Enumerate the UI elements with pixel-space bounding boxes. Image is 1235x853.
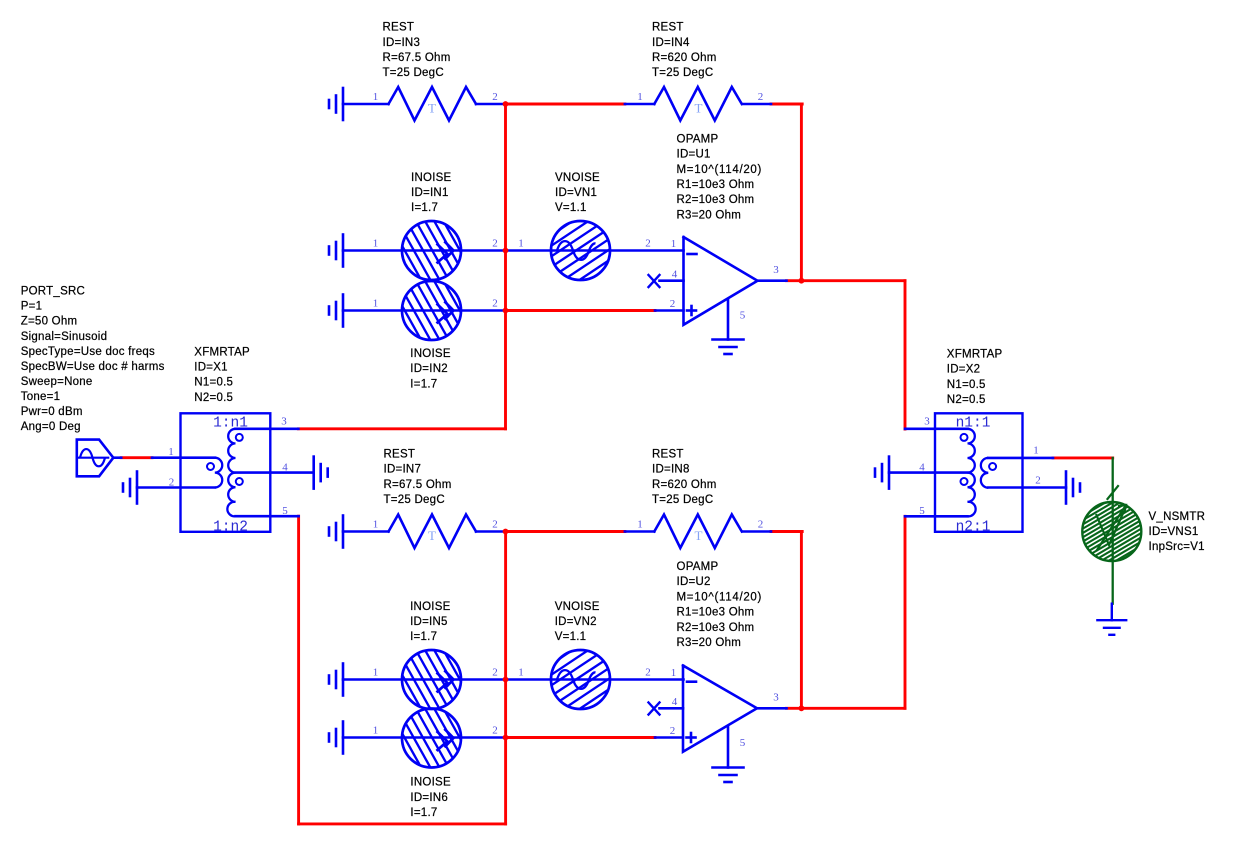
svg-text:1: 1: [671, 238, 677, 250]
wire IN6 row: [343, 736, 506, 739]
svg-text:4: 4: [919, 461, 925, 473]
svg-text:3: 3: [924, 416, 930, 428]
X2 secondary coil 2: [967, 473, 975, 517]
X1 pin2 lead: [137, 486, 215, 489]
svg-text:1: 1: [373, 91, 379, 103]
svg-text:M=10^(114/20): M=10^(114/20): [677, 591, 763, 603]
ground X1 pin2: [136, 472, 139, 504]
resistor IN4: [625, 103, 654, 106]
svg-text:2: 2: [1035, 474, 1041, 486]
ground IN7: [342, 516, 345, 548]
svg-text:R1=10e3 Ohm: R1=10e3 Ohm: [677, 179, 755, 191]
X2 pin1 lead: [988, 457, 1053, 460]
junction (505.5,310.5): [503, 308, 509, 314]
svg-text:V_NSMTR: V_NSMTR: [1149, 511, 1206, 523]
wire feedback vertical to U2 output: [800, 532, 803, 709]
U2 output lead: [757, 707, 787, 710]
svg-text:2: 2: [492, 238, 498, 250]
svg-text:V=1.1: V=1.1: [555, 202, 587, 214]
svg-text:n2:1: n2:1: [956, 519, 991, 535]
svg-text:ID=IN7: ID=IN7: [384, 464, 422, 476]
svg-text:ID=VN1: ID=VN1: [555, 187, 597, 199]
wire X1 pin3 horizontal: [298, 427, 505, 430]
wire IN4.2 to feedback corner: [771, 103, 802, 106]
junction (801.4,280.7): [799, 278, 805, 284]
svg-text:ID=X1: ID=X1: [194, 362, 228, 374]
wire INOISE6 out to U2 plus: [506, 736, 656, 739]
resistor IN7: [343, 530, 389, 533]
wire bottom bus horizontal: [299, 822, 506, 825]
svg-text:1: 1: [671, 667, 677, 679]
svg-text:1: 1: [168, 446, 174, 458]
resistor IN8: [625, 530, 654, 533]
svg-text:REST: REST: [652, 22, 684, 34]
svg-text:1:n1: 1:n1: [213, 415, 248, 431]
wire VN1 row: [506, 249, 684, 252]
svg-text:INOISE: INOISE: [410, 601, 451, 613]
svg-text:N2=0.5: N2=0.5: [194, 392, 233, 404]
svg-text:2: 2: [492, 91, 498, 103]
wire IN5/VN2 row: [343, 678, 684, 681]
junction (505.5,531.5): [503, 529, 509, 535]
svg-text:1: 1: [518, 238, 524, 250]
svg-text:ID=IN5: ID=IN5: [410, 616, 448, 628]
wire feedback vertical to U1 output: [800, 104, 803, 281]
wire IN7.2 to IN8.1: [506, 530, 625, 533]
wire meter vertical green: [1112, 458, 1114, 604]
svg-text:5: 5: [740, 310, 746, 322]
transformer X1 box: [181, 413, 271, 532]
svg-text:1: 1: [637, 519, 643, 531]
svg-text:2: 2: [492, 298, 498, 310]
ground X2 pin4: [888, 457, 891, 489]
svg-text:2: 2: [492, 725, 498, 737]
svg-text:T: T: [695, 100, 703, 115]
junction (505.5,679.5): [503, 677, 509, 683]
ground IN1: [342, 235, 345, 267]
svg-text:ID=X2: ID=X2: [947, 364, 981, 376]
svg-text:SpecBW=Use doc # harms: SpecBW=Use doc # harms: [21, 361, 165, 373]
svg-text:ID=U2: ID=U2: [677, 576, 711, 588]
svg-text:XFMRTAP: XFMRTAP: [194, 346, 250, 358]
svg-text:ID=IN3: ID=IN3: [383, 37, 421, 49]
U2 pin4 lead and no-connect X: [660, 707, 684, 710]
op-amp U1: [684, 237, 758, 325]
port PORT_SRC P1: [77, 440, 114, 477]
X2 primary coil: [981, 458, 988, 488]
X1 secondary coil 2: [227, 473, 235, 517]
svg-text:4: 4: [282, 461, 288, 473]
X1 pin1 lead: [152, 456, 215, 459]
svg-text:2: 2: [758, 91, 764, 103]
svg-text:n1:1: n1:1: [956, 415, 991, 431]
ground X2 pin2: [1065, 472, 1068, 504]
wire port to X1 pin1: [121, 456, 152, 459]
svg-text:M=10^(114/20): M=10^(114/20): [677, 164, 763, 176]
svg-text:2: 2: [645, 667, 651, 679]
svg-text:V=1.1: V=1.1: [555, 631, 587, 643]
svg-text:SpecType=Use doc freqs: SpecType=Use doc freqs: [21, 346, 155, 358]
svg-text:REST: REST: [384, 448, 416, 460]
svg-text:Tone=1: Tone=1: [21, 391, 61, 403]
svg-text:Sweep=None: Sweep=None: [21, 376, 93, 388]
junction (505.5,737.5): [503, 735, 509, 741]
svg-text:XFMRTAP: XFMRTAP: [947, 348, 1003, 360]
svg-text:2: 2: [758, 519, 764, 531]
X2 pin4 wire: [889, 471, 968, 474]
svg-text:Ang=0 Deg: Ang=0 Deg: [21, 421, 81, 433]
svg-text:2: 2: [492, 667, 498, 679]
svg-text:4: 4: [672, 268, 678, 280]
X2 pin3 wire: [905, 427, 968, 430]
svg-text:I=1.7: I=1.7: [410, 807, 437, 819]
wire U2 output to corner: [787, 707, 906, 710]
svg-text:T=25 DegC: T=25 DegC: [652, 494, 713, 506]
wire INOISE2 out to U1 plus: [506, 309, 656, 312]
svg-text:R2=10e3 Ohm: R2=10e3 Ohm: [677, 622, 755, 634]
X1 pin3 wire: [236, 427, 299, 430]
svg-text:ID=IN2: ID=IN2: [410, 363, 448, 375]
svg-text:2: 2: [169, 476, 175, 488]
svg-text:ID=IN8: ID=IN8: [652, 464, 690, 476]
svg-text:InpSrc=V1: InpSrc=V1: [1149, 541, 1205, 553]
svg-text:1: 1: [518, 667, 524, 679]
svg-text:3: 3: [281, 416, 287, 428]
svg-text:N2=0.5: N2=0.5: [947, 394, 986, 406]
ground IN3: [342, 88, 345, 120]
resistor IN3: [343, 103, 389, 106]
svg-text:T: T: [428, 100, 436, 115]
svg-text:P=1: P=1: [21, 301, 43, 313]
svg-text:T=25 DegC: T=25 DegC: [652, 67, 713, 79]
X2 secondary coil 1: [967, 429, 974, 473]
svg-text:INOISE: INOISE: [411, 172, 452, 184]
svg-text:REST: REST: [383, 22, 415, 34]
svg-text:T=25 DegC: T=25 DegC: [383, 67, 444, 79]
svg-text:I=1.7: I=1.7: [410, 378, 437, 390]
svg-text:1: 1: [637, 91, 643, 103]
op-amp U2: [683, 666, 757, 752]
U1 pin4 lead and no-connect X: [660, 279, 684, 282]
svg-text:1: 1: [373, 298, 379, 310]
svg-text:1: 1: [373, 519, 379, 531]
wire vertical up to X2 pin5: [904, 516, 907, 708]
svg-text:R3=20 Ohm: R3=20 Ohm: [677, 209, 742, 221]
wire IN8.2 to feedback corner bottom: [771, 530, 802, 533]
transformer X2 box: [935, 413, 1023, 532]
svg-text:1: 1: [373, 725, 379, 737]
svg-text:Signal=Sinusoid: Signal=Sinusoid: [21, 331, 108, 343]
svg-text:3: 3: [773, 692, 779, 704]
svg-text:T: T: [695, 528, 703, 543]
wire bottom bus vertical x=505.5: [504, 532, 507, 824]
svg-text:INOISE: INOISE: [410, 777, 451, 789]
svg-text:R=67.5 Ohm: R=67.5 Ohm: [384, 479, 452, 491]
svg-text:5: 5: [919, 505, 925, 517]
wire U1 output to X2 corner: [787, 279, 906, 282]
svg-text:4: 4: [672, 696, 678, 708]
svg-text:R=67.5 Ohm: R=67.5 Ohm: [383, 52, 451, 64]
svg-text:VNOISE: VNOISE: [555, 601, 600, 613]
wire X1 pin5 vertical: [297, 516, 300, 824]
X1 secondary coil 1: [228, 429, 235, 473]
wire top bus vertical x=505.5: [504, 104, 507, 429]
svg-text:ID=VN2: ID=VN2: [555, 616, 597, 628]
ground IN6: [342, 722, 345, 754]
svg-text:OPAMP: OPAMP: [677, 561, 719, 573]
svg-text:3: 3: [773, 264, 779, 276]
svg-text:2: 2: [670, 298, 676, 310]
svg-text:OPAMP: OPAMP: [677, 133, 719, 145]
svg-text:2: 2: [670, 725, 676, 737]
ground IN5: [342, 664, 345, 696]
svg-text:R=620 Ohm: R=620 Ohm: [652, 479, 717, 491]
U2 pin5 ground: [727, 727, 730, 768]
svg-text:REST: REST: [652, 448, 684, 460]
svg-text:PORT_SRC: PORT_SRC: [21, 286, 85, 298]
svg-text:I=1.7: I=1.7: [410, 631, 437, 643]
wire X2 pin1 to meter: [1053, 456, 1113, 459]
svg-text:T=25 DegC: T=25 DegC: [384, 494, 445, 506]
junction (505.5,250.5): [503, 248, 509, 254]
wire IN2 row: [343, 309, 506, 312]
svg-text:2: 2: [492, 519, 498, 531]
U1 pin2 lead: [655, 309, 684, 312]
svg-text:R=620 Ohm: R=620 Ohm: [652, 52, 717, 64]
svg-text:R1=10e3 Ohm: R1=10e3 Ohm: [677, 607, 755, 619]
U1 pin5 ground: [727, 300, 730, 340]
svg-text:1: 1: [1033, 445, 1039, 457]
svg-text:ID=IN6: ID=IN6: [410, 792, 448, 804]
wire vertical down to X2 pin3: [904, 281, 907, 429]
ground X1 pin4: [312, 457, 315, 489]
svg-text:VNOISE: VNOISE: [555, 172, 600, 184]
X1 primary coil: [215, 458, 222, 488]
svg-text:1:n2: 1:n2: [213, 519, 248, 535]
ground IN2: [342, 295, 345, 327]
svg-text:ID=VNS1: ID=VNS1: [1149, 526, 1199, 538]
svg-text:N1=0.5: N1=0.5: [947, 379, 986, 391]
svg-text:ID=IN1: ID=IN1: [411, 187, 449, 199]
svg-text:I=1.7: I=1.7: [411, 202, 438, 214]
svg-text:5: 5: [282, 505, 288, 517]
svg-text:1: 1: [373, 238, 379, 250]
junction (505.5,104): [503, 101, 509, 107]
junction (801.4,708.3): [799, 705, 805, 711]
svg-text:R2=10e3 Ohm: R2=10e3 Ohm: [677, 194, 755, 206]
svg-text:2: 2: [645, 238, 651, 250]
svg-text:ID=IN4: ID=IN4: [652, 37, 690, 49]
U2 pin2 lead: [655, 736, 683, 739]
wire IN1 row: [343, 249, 506, 252]
svg-text:ID=U1: ID=U1: [677, 149, 711, 161]
svg-text:Pwr=0 dBm: Pwr=0 dBm: [21, 406, 83, 418]
X1 pin5 wire: [236, 515, 299, 518]
wire net1 top horizontal IN3.2 to IN4.1: [506, 103, 625, 106]
svg-text:5: 5: [740, 737, 746, 749]
X1 pin4 wire to ground: [236, 471, 314, 474]
U1 output lead: [758, 279, 787, 282]
X2 pin5 wire: [905, 515, 968, 518]
svg-text:1: 1: [373, 667, 379, 679]
svg-text:INOISE: INOISE: [410, 348, 451, 360]
ground meter: [1111, 604, 1113, 621]
svg-text:Z=50 Ohm: Z=50 Ohm: [21, 316, 78, 328]
X2 pin2 lead: [988, 486, 1066, 489]
svg-text:N1=0.5: N1=0.5: [194, 377, 233, 389]
svg-text:R3=20 Ohm: R3=20 Ohm: [677, 637, 742, 649]
svg-text:T: T: [428, 528, 436, 543]
